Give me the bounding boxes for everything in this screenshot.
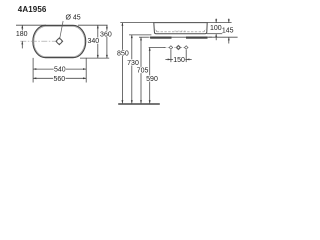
label 850	[117, 50, 130, 56]
dim 180 arrow up	[21, 25, 23, 28]
label 705	[136, 67, 149, 73]
rim extension line right	[207, 22, 231, 24]
dim 590 arrow up	[149, 48, 151, 51]
dim 850 line	[121, 23, 123, 104]
dim 100 bottom outside arrow	[215, 34, 217, 37]
dim 145 bottom outside arrow	[228, 37, 230, 40]
dim 150 right ext line	[185, 50, 187, 62]
tap hole left diamond	[169, 46, 172, 49]
dim 180 extension line (top edge, left)	[16, 24, 46, 26]
inner bowl left hook	[155, 29, 157, 32]
tap hole center circle	[177, 46, 179, 48]
dim 340 line	[97, 25, 99, 58]
dim 705 arrow down	[140, 100, 142, 103]
dim 590 arrow down	[149, 100, 151, 103]
tap hole right diamond	[185, 46, 188, 49]
drain diamond (plan view)	[56, 38, 63, 45]
basin inner rim (plan view)	[34, 26, 85, 56]
dim 730 line	[131, 35, 133, 104]
basin outer rim (plan view)	[33, 25, 86, 57]
dim 540 line	[33, 68, 86, 70]
svg-text:730: 730	[127, 60, 139, 67]
svg-text:360: 360	[100, 31, 112, 38]
svg-text:4A1956: 4A1956	[18, 5, 47, 14]
dim 705 line	[140, 37, 142, 103]
dim 360 arrow up	[106, 25, 108, 28]
dim 340 arrow down	[97, 55, 99, 58]
dim 180 lower outside arrow	[21, 41, 23, 44]
label 540	[54, 66, 66, 72]
dim 590 ext line	[149, 47, 166, 49]
svg-text:850: 850	[117, 50, 129, 57]
drain circle	[57, 39, 62, 44]
tap hole centerline (elevation)	[164, 47, 189, 49]
ext line top right (plan)	[78, 24, 108, 26]
dim 590 line	[149, 48, 151, 104]
dim 730 arrow up	[131, 35, 133, 38]
dim 850 arrow down	[121, 100, 123, 103]
dim 150 left ext line	[170, 50, 172, 62]
drain recess dashes	[175, 30, 186, 32]
label 150	[173, 56, 185, 62]
svg-text:145: 145	[222, 28, 234, 35]
svg-text:100: 100	[210, 25, 222, 32]
dim 560 arrow left	[33, 77, 36, 79]
svg-text:180: 180	[16, 31, 28, 38]
dim 340 arrow up	[97, 25, 99, 28]
label 340	[87, 38, 99, 44]
svg-text:560: 560	[53, 76, 65, 83]
floor line	[118, 103, 160, 105]
dim 730 arrow down	[131, 100, 133, 103]
dim 560 line	[33, 77, 86, 79]
dim 730 ext line	[129, 34, 151, 36]
inner bowl dashed line (elevation)	[157, 31, 204, 33]
counter surface line	[150, 36, 212, 38]
dim 540 arrow left	[33, 68, 36, 70]
rim extension line left	[120, 22, 154, 24]
leader line for Ø45	[60, 21, 63, 38]
svg-text:340: 340	[87, 38, 99, 45]
svg-text:590: 590	[146, 76, 158, 83]
dim 705 arrow up	[140, 37, 142, 40]
dim 360 line	[106, 25, 108, 58]
dim 145 bottom ext line	[209, 36, 238, 38]
tap hole center diamond	[176, 45, 181, 50]
svg-text:540: 540	[54, 67, 66, 74]
counter slab left (section)	[150, 37, 171, 39]
dim 540 arrow right	[83, 68, 86, 70]
inner bowl right hook	[204, 29, 205, 32]
dim 145 top outside arrow	[228, 19, 230, 22]
dim 150 left outside arrow	[168, 58, 171, 60]
ext line 540/560 right	[85, 58, 87, 83]
dim 705 ext line	[139, 36, 149, 38]
dim 560 arrow right	[83, 77, 86, 79]
basin side profile (elevation)	[154, 23, 207, 34]
dim 360 arrow down	[106, 55, 108, 58]
svg-text:705: 705	[137, 68, 149, 75]
label 360	[100, 31, 112, 37]
dim 150 line	[171, 58, 186, 60]
ext line bottom right (plan)	[80, 57, 109, 59]
svg-text:150: 150	[173, 57, 185, 64]
label 560	[53, 75, 65, 81]
counter slab right (section)	[186, 37, 208, 39]
ext line 540/560 left	[32, 58, 34, 83]
label 590	[146, 75, 159, 81]
label 730	[127, 59, 140, 65]
dim 100 bottom ext line	[207, 33, 223, 35]
dim 150 right outside arrow	[186, 58, 189, 60]
dim 850 arrow up	[121, 23, 123, 26]
dim 180 line upper segment	[21, 25, 23, 30]
dim 100 top outside arrow	[215, 19, 217, 22]
centerline through drain (plan view)	[20, 40, 55, 42]
svg-text:Ø 45: Ø 45	[66, 15, 81, 22]
label 145	[222, 27, 234, 33]
